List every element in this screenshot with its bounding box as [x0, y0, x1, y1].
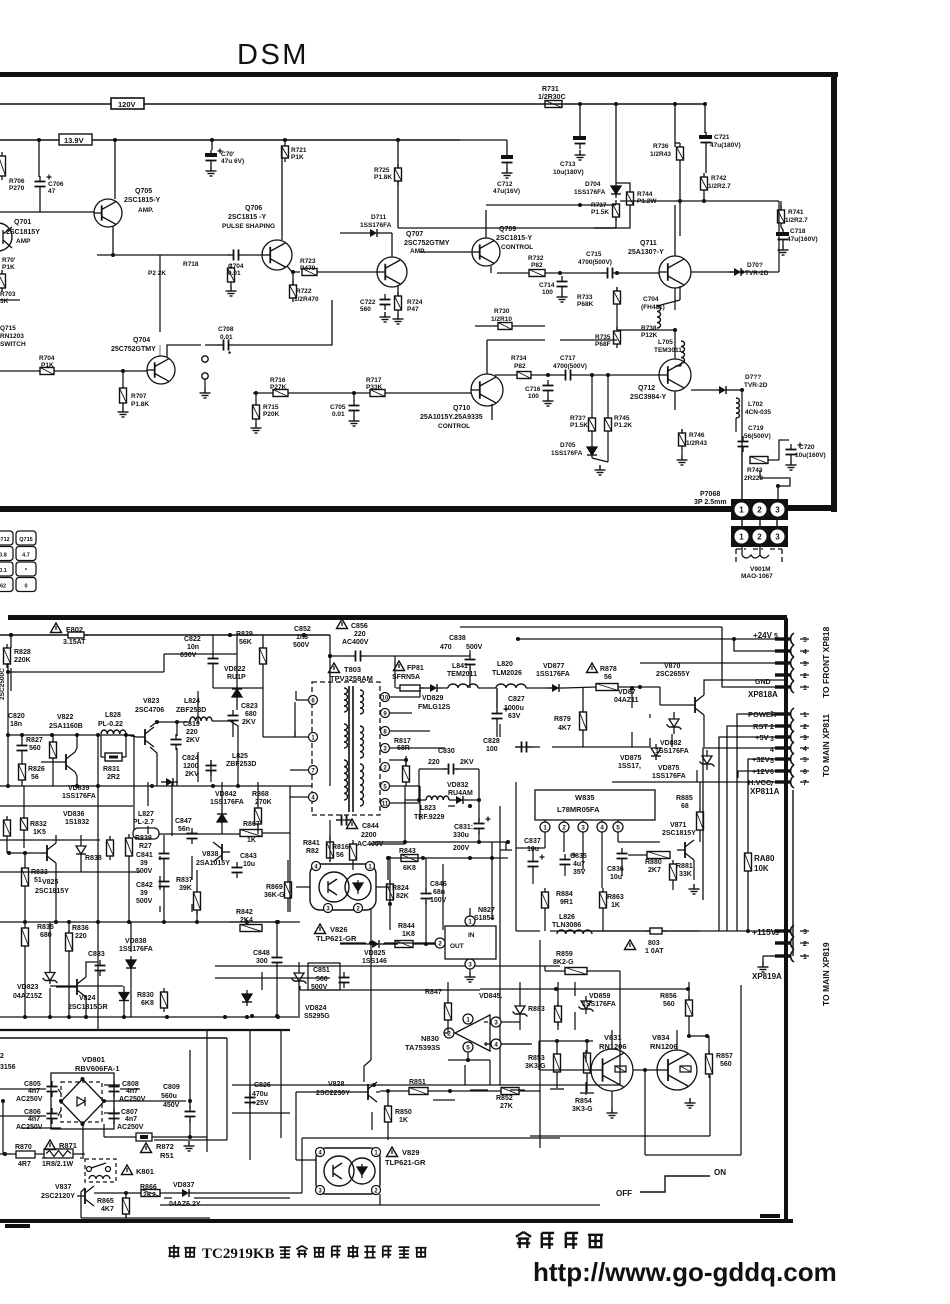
wire to RA80 — [747, 766, 749, 849]
wire to connector pin3 — [777, 486, 779, 499]
junction — [388, 902, 392, 906]
wire — [380, 1090, 409, 1092]
svg-text:1: 1 — [739, 533, 744, 542]
diode VD875a — [651, 744, 661, 760]
wire R744 bottom — [594, 209, 630, 228]
svg-text:4: 4 — [803, 649, 807, 656]
wire v302 — [301, 1138, 303, 1193]
wire row848 — [516, 847, 545, 849]
svg-text:6K8: 6K8 — [141, 1000, 154, 1007]
svg-text:R830: R830 — [137, 992, 154, 999]
svg-text:1K: 1K — [247, 837, 256, 844]
IC N835 box — [535, 790, 655, 820]
wire C838 up — [469, 650, 471, 656]
junction — [37, 138, 41, 142]
svg-text:CONTROL: CONTROL — [501, 244, 533, 251]
svg-text:OUT: OUT — [450, 943, 464, 950]
wire R741 top — [780, 205, 782, 210]
svg-text:Q715: Q715 — [19, 537, 32, 543]
wire R857 top — [708, 1036, 710, 1053]
wire 13.9V rail right — [92, 139, 460, 141]
wire C823 down — [232, 726, 234, 737]
wire R857 bottom — [709, 1075, 711, 1136]
wire R865 down — [125, 1214, 127, 1218]
svg-text:5: 5 — [803, 637, 807, 644]
svg-text:TA75393S: TA75393S — [405, 1043, 440, 1052]
svg-text:TVR-2D: TVR-2D — [745, 270, 769, 277]
svg-text:1SS176FA: 1SS176FA — [62, 793, 96, 800]
wire — [671, 734, 673, 747]
svg-text:1: 1 — [803, 685, 807, 692]
junction — [555, 1039, 559, 1043]
wire loop right — [478, 769, 480, 800]
svg-text:220: 220 — [428, 759, 440, 766]
wire Q711 out right — [691, 271, 779, 273]
wire R841 up — [329, 835, 331, 862]
svg-text:http://www.go-gddq.com: http://www.go-gddq.com — [533, 1257, 837, 1287]
wire to pin2 — [444, 1032, 448, 1034]
wire C838 down — [469, 668, 471, 688]
wire — [607, 375, 609, 414]
wire V831 emitter — [611, 1091, 613, 1108]
svg-text:SWITCH: SWITCH — [0, 341, 26, 348]
svg-text:10u: 10u — [243, 861, 255, 868]
svg-text:V834: V834 — [652, 1033, 670, 1042]
junction — [223, 1015, 227, 1019]
svg-text:500V: 500V — [136, 898, 153, 905]
svg-text:C70': C70' — [221, 151, 235, 158]
svg-text:XP811A: XP811A — [750, 787, 780, 796]
T803 terminal 7 — [309, 766, 318, 775]
wire pin5 down — [617, 832, 619, 842]
wire R879 up — [582, 688, 584, 708]
capacitor C837 — [528, 855, 545, 873]
svg-text:2KV: 2KV — [242, 719, 256, 726]
svg-text:V901M: V901M — [750, 566, 771, 573]
wire Q710 emitter — [491, 404, 493, 420]
svg-text:35V: 35V — [573, 869, 586, 876]
resistor R828 — [4, 644, 11, 668]
svg-text:1SS176FA: 1SS176FA — [360, 222, 392, 229]
wire pin4 out — [501, 1043, 532, 1045]
wire loop left — [418, 769, 420, 800]
resistor R835 — [22, 924, 29, 950]
wire R867 right — [262, 832, 290, 834]
wire to Q707 base — [317, 271, 377, 273]
wire — [101, 756, 105, 758]
wire — [519, 1090, 540, 1092]
svg-text:R831: R831 — [103, 766, 120, 773]
inductor L841 — [448, 684, 478, 688]
svg-text:L828: L828 — [105, 712, 121, 719]
svg-text:R704: R704 — [39, 355, 55, 362]
wire FP81 up — [394, 656, 396, 688]
wire stub left — [0, 299, 20, 301]
wire — [160, 1192, 177, 1194]
svg-text:3P 2.5mm: 3P 2.5mm — [694, 499, 727, 506]
svg-text:C823: C823 — [241, 703, 258, 710]
svg-text:RA80: RA80 — [754, 854, 775, 863]
svg-text:RU4AM: RU4AM — [448, 790, 473, 797]
resistor R832b — [4, 816, 11, 840]
wire row 627 — [460, 626, 722, 628]
zener VD859 — [579, 996, 594, 1014]
resistor R743 — [750, 457, 768, 464]
svg-text:P82: P82 — [514, 363, 526, 370]
svg-text:C856: C856 — [351, 623, 368, 630]
ground switch — [200, 388, 211, 398]
wire VD859 down — [574, 1012, 576, 1030]
wire v620 — [619, 971, 621, 1085]
svg-text:C848: C848 — [253, 950, 270, 957]
wire R704 to Q704 — [54, 370, 147, 372]
wire C708 right — [234, 300, 332, 345]
resistor R851 — [409, 1088, 428, 1095]
svg-text:R859: R859 — [556, 951, 573, 958]
diode VD838 — [126, 956, 136, 972]
resistor R867 — [240, 830, 262, 837]
svg-text:1SS176FA: 1SS176FA — [574, 189, 606, 196]
svg-text:C719: C719 — [748, 425, 764, 432]
svg-text:TC2919KB: TC2919KB — [202, 1246, 275, 1262]
capacitor C706 — [35, 175, 52, 193]
svg-text:V837: V837 — [55, 1184, 71, 1191]
wire — [564, 687, 596, 688]
thin bus right — [792, 790, 794, 956]
wire T803 to R817 — [389, 759, 406, 761]
optocoupler V826 left — [319, 872, 349, 902]
svg-text:3: 3 — [803, 929, 807, 936]
svg-text:R706: R706 — [9, 178, 25, 185]
svg-text:4CN-035: 4CN-035 — [745, 409, 771, 416]
wire C715 to Q711 — [618, 272, 659, 274]
svg-text:P33K: P33K — [366, 384, 383, 391]
svg-text:1SS176FA: 1SS176FA — [119, 946, 153, 953]
svg-text:C851: C851 — [313, 967, 330, 974]
svg-text:P1K: P1K — [41, 362, 54, 369]
svg-text:56: 56 — [31, 774, 39, 781]
svg-text:470: 470 — [440, 644, 452, 651]
N830 pin 1 — [463, 1014, 473, 1024]
warning V829 — [387, 1147, 398, 1157]
resistor R826 — [19, 760, 26, 784]
svg-text:56n: 56n — [178, 826, 190, 833]
wire — [80, 1157, 82, 1159]
inductor L827 — [133, 828, 159, 839]
capacitor C833 — [95, 960, 106, 976]
ground V871 — [689, 884, 700, 894]
junction +24V — [516, 637, 520, 641]
separator line — [0, 1029, 290, 1031]
N835 pin 3 — [578, 820, 588, 832]
transistor V837 — [77, 1186, 94, 1206]
resistor R869 — [285, 878, 292, 902]
resistor R859 — [565, 968, 587, 975]
svg-text:68R: 68R — [397, 745, 410, 752]
wire V834 collector node — [687, 1035, 709, 1037]
wire R884 down — [544, 912, 546, 931]
svg-text:R883: R883 — [528, 1006, 545, 1013]
resistor R725 — [395, 164, 402, 185]
svg-text:47u 6V): 47u 6V) — [221, 158, 244, 165]
resistor R841 — [327, 838, 334, 862]
wire pin1 down — [544, 832, 546, 848]
resistor R865 — [123, 1194, 130, 1218]
T803 terminal 11 — [381, 799, 390, 808]
svg-text:L78MR05FA: L78MR05FA — [557, 805, 600, 814]
wire V825 emitter — [55, 863, 57, 922]
wire — [679, 205, 681, 236]
capacitor C712 — [502, 152, 513, 168]
junction — [417, 798, 421, 802]
resistor R70x — [0, 270, 6, 292]
svg-text:V870: V870 — [664, 663, 680, 670]
junction — [614, 102, 618, 106]
svg-text:C706: C706 — [48, 181, 64, 188]
svg-text:C837: C837 — [524, 838, 541, 845]
diode VD836 — [76, 843, 86, 857]
N830 pin 4 — [491, 1039, 501, 1049]
N830 pin 5 — [463, 1042, 473, 1052]
svg-text:R828: R828 — [14, 649, 31, 656]
svg-text:2SC1815Y: 2SC1815Y — [6, 229, 40, 236]
svg-text:+25V: +25V — [252, 1100, 269, 1107]
junction — [3, 1152, 7, 1156]
svg-text:P1.8K: P1.8K — [131, 401, 149, 408]
wire — [122, 756, 126, 758]
svg-text:P1K: P1K — [291, 154, 304, 161]
svg-text:R836: R836 — [72, 925, 89, 932]
wire — [58, 1089, 61, 1093]
wire C824 — [210, 760, 212, 782]
junction — [403, 840, 407, 844]
svg-text:R743: R743 — [747, 467, 763, 474]
wire Q711 collector — [674, 205, 676, 256]
diode VD8xx — [242, 990, 252, 1006]
N830 pin 2 — [444, 1028, 454, 1038]
svg-text:2: 2 — [803, 724, 807, 731]
svg-text:1: 1 — [468, 919, 472, 926]
transistor V871 — [677, 840, 694, 860]
junction — [9, 633, 13, 637]
fuse F802 — [64, 632, 88, 638]
wire to Q710 — [385, 392, 471, 394]
svg-text:47u(16V): 47u(16V) — [493, 188, 520, 195]
junction — [6, 733, 10, 737]
junction — [302, 633, 306, 637]
wire v134 — [133, 735, 135, 830]
junction — [477, 840, 481, 844]
svg-text:3: 3 — [775, 506, 780, 515]
wire R730 right — [512, 325, 545, 327]
caption guangdian hanzi — [516, 1232, 531, 1248]
svg-text:300: 300 — [256, 958, 268, 965]
svg-text:RN1203: RN1203 — [0, 333, 24, 340]
wire — [73, 1153, 85, 1155]
svg-text:D711: D711 — [371, 214, 387, 221]
wire — [35, 1153, 44, 1155]
wire Q709 collector up — [485, 210, 487, 238]
junction — [291, 270, 295, 274]
wire — [449, 799, 451, 801]
wire T803 t10 — [389, 696, 420, 698]
wire — [104, 1084, 120, 1086]
svg-text:3: 3 — [494, 1020, 498, 1027]
wire loop top right — [456, 768, 479, 770]
wire — [531, 374, 560, 376]
svg-text:VD875: VD875 — [658, 765, 680, 772]
svg-text:33K: 33K — [679, 871, 692, 878]
junction — [283, 138, 287, 142]
wire R828 bottom — [7, 663, 9, 672]
bottom block bottom border — [0, 1216, 793, 1226]
wire R869 up — [287, 860, 289, 878]
svg-text:25A130?-Y: 25A130?-Y — [628, 249, 664, 256]
capacitor C806 — [47, 1108, 58, 1124]
ground C718 — [778, 245, 789, 255]
junction — [558, 271, 562, 275]
wire C848 down — [276, 968, 278, 1016]
svg-text:V871: V871 — [670, 822, 686, 829]
wire — [288, 392, 370, 394]
svg-text:R744: R744 — [637, 191, 653, 198]
svg-text:R865: R865 — [97, 1198, 114, 1205]
wire R837 down — [191, 904, 193, 912]
resistor R718 — [228, 264, 235, 286]
capacitor C841 — [159, 848, 170, 864]
junction — [9, 633, 13, 637]
junction — [102, 1099, 106, 1103]
junction — [59, 1099, 63, 1103]
svg-text:OFF: OFF — [616, 1189, 632, 1198]
wire — [382, 943, 395, 945]
wire — [499, 724, 501, 737]
wire row 1017 — [0, 1016, 300, 1018]
capacitor C714 — [557, 276, 568, 292]
svg-text:D70?: D70? — [747, 262, 763, 269]
svg-text:Q712: Q712 — [638, 385, 655, 392]
wire to R704 — [0, 370, 40, 372]
svg-text:L702: L702 — [748, 401, 763, 408]
svg-text:500V: 500V — [466, 644, 483, 651]
wire C809 top — [189, 1103, 191, 1108]
bottom block right bus — [784, 618, 788, 1221]
wire — [125, 735, 127, 757]
svg-text:PL-2.7: PL-2.7 — [133, 819, 154, 826]
T803 terminal 3 — [381, 744, 390, 753]
junction — [23, 851, 27, 855]
wire R869 down — [287, 902, 289, 912]
wire R847 down — [447, 1024, 449, 1033]
wire to C827 — [496, 688, 498, 708]
wire R883 down — [557, 1022, 559, 1030]
svg-text:R27: R27 — [139, 843, 152, 850]
svg-text:S1854: S1854 — [474, 915, 494, 922]
wire R863 down — [602, 912, 604, 931]
svg-text:25C752GTMY: 25C752GTMY — [111, 346, 156, 353]
svg-text:C836: C836 — [607, 866, 624, 873]
svg-text:62: 62 — [0, 584, 6, 590]
svg-text:R742: R742 — [711, 175, 727, 182]
resistor R881 — [670, 860, 677, 884]
wire — [585, 1050, 587, 1062]
resistor R704 — [40, 368, 54, 375]
warning R871 — [45, 1140, 56, 1150]
ground V834 — [685, 1098, 696, 1108]
ground C722 — [380, 312, 391, 322]
svg-text:0.01: 0.01 — [332, 411, 345, 418]
transistor V870 — [687, 695, 704, 715]
svg-text:56(500V): 56(500V) — [744, 433, 771, 440]
wire — [24, 853, 26, 864]
wire — [419, 786, 421, 820]
wire row 672 — [8, 671, 164, 673]
junction — [67, 1015, 71, 1019]
wire C831 top — [478, 802, 480, 821]
svg-text:1: 1 — [543, 825, 547, 832]
fuse 803 — [646, 928, 666, 934]
svg-text:10n: 10n — [187, 644, 199, 651]
svg-text:2SC2655Y: 2SC2655Y — [656, 671, 690, 678]
wire — [618, 686, 660, 688]
svg-text:R724: R724 — [407, 299, 423, 306]
junction — [369, 941, 373, 945]
wire C809 bottom — [189, 1120, 191, 1137]
junction — [275, 1014, 279, 1018]
resistor R831 — [105, 753, 122, 761]
wire — [107, 1088, 109, 1090]
svg-text:2SC1815Y: 2SC1815Y — [35, 888, 69, 895]
wire to C715 — [545, 272, 604, 274]
wire — [649, 714, 651, 718]
wire fuse left — [630, 930, 650, 932]
wire row 840 — [0, 839, 100, 841]
wire to C704 — [97, 254, 230, 256]
junction — [195, 920, 199, 924]
resistor R830 — [161, 988, 168, 1012]
svg-text:1: 1 — [803, 954, 807, 961]
svg-text:TO MAIN XP811: TO MAIN XP811 — [821, 714, 831, 777]
svg-text:C809: C809 — [163, 1084, 180, 1091]
junction — [578, 203, 582, 207]
wire V825 base — [9, 852, 39, 854]
junction — [50, 733, 54, 737]
wire — [675, 142, 680, 144]
svg-text:VD801: VD801 — [82, 1055, 105, 1064]
svg-text:R841: R841 — [303, 840, 320, 847]
svg-text:R722: R722 — [296, 288, 312, 295]
wire v227 — [226, 1038, 228, 1140]
svg-text:3: 3 — [775, 533, 780, 542]
wire R744 top — [616, 183, 630, 188]
wire Q712 emitter — [674, 391, 676, 410]
junction — [643, 1068, 647, 1072]
wire Q706 collector — [281, 146, 283, 240]
wire C846 bottom — [425, 901, 427, 944]
wire — [389, 856, 391, 887]
capacitor C819 — [171, 734, 182, 750]
svg-text:9R1: 9R1 — [560, 899, 573, 906]
svg-text:TRF.9229: TRF.9229 — [414, 814, 444, 821]
wire v281 — [280, 1030, 282, 1138]
svg-text:200V: 200V — [453, 845, 470, 852]
inductor L702 — [736, 398, 740, 418]
wire N830 gnd — [464, 1065, 466, 1085]
diode D704 — [611, 182, 621, 198]
svg-text:R733: R733 — [577, 294, 593, 301]
svg-text:47: 47 — [48, 188, 56, 195]
caption guangdian hanzi — [542, 1233, 554, 1249]
